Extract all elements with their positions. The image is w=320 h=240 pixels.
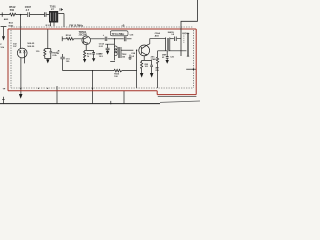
wire stage input [62, 38, 82, 40]
box TP501 [110, 31, 128, 36]
wire decoupling vertical [92, 71, 94, 104]
border red main PCB [8, 29, 196, 95]
ground arrow C514 [106, 51, 109, 55]
resistor R509 [141, 60, 143, 73]
capacitor C511 [50, 49, 53, 59]
wire ground bus bottom right [160, 101, 200, 102]
wire TR1 stub [24, 58, 26, 64]
resistor R514 [66, 38, 73, 41]
transformer T503 [166, 37, 174, 50]
svg-text:TP 10.7MHz: TP 10.7MHz [112, 34, 126, 36]
wire ground bus bottom [0, 103, 160, 105]
svg-text:C514: C514 [99, 42, 105, 45]
capacitor C515 [124, 36, 126, 41]
capacitor C509 above T501 [60, 8, 63, 11]
wire TR501 collector [91, 38, 115, 40]
capacitor C512 [92, 50, 95, 58]
svg-text:+B: +B [121, 25, 124, 27]
ground arrow R515 [83, 59, 86, 63]
ground antenna arrow left [1, 27, 7, 41]
resistor R506 [44, 49, 46, 59]
svg-text:E 5.5: E 5.5 [46, 25, 52, 27]
wire top input [0, 14, 49, 16]
capacitor C519 [150, 60, 153, 73]
node dot dashed 1 [20, 88, 21, 89]
capacitor C520 [166, 51, 169, 60]
capacitor C513 series [105, 37, 107, 41]
border dashed inner [11, 27, 193, 88]
capacitor C517 [129, 55, 132, 60]
label R512 value [4, 4, 56, 27]
capacitor C514 [106, 44, 110, 51]
capacitor C508 [45, 12, 46, 17]
svg-text:R514: R514 [66, 34, 72, 37]
wire base TR502 [121, 49, 133, 51]
svg-text:AB2: AB2 [4, 18, 9, 21]
wire bias RC [45, 29, 51, 48]
ground arrow C512 [92, 58, 95, 62]
wire ground drop 1 [56, 86, 58, 104]
svg-text:560: 560 [10, 8, 15, 12]
antenna rod [187, 33, 189, 56]
node dot dashed 3 [47, 88, 48, 89]
svg-text:H2(1C): H2(1C) [182, 33, 189, 35]
node dot rail [92, 70, 93, 71]
resistor R512 [10, 13, 16, 16]
node J3 junction dot [136, 50, 137, 51]
resistor R516 [114, 69, 122, 72]
wire output row [158, 50, 187, 52]
ground arrow C520 [166, 60, 169, 64]
transistor TR501 [82, 36, 91, 45]
ground arrow R509 [140, 73, 144, 78]
node rail junction [110, 101, 111, 104]
wire vertical tuning line [20, 15, 22, 94]
resistor R510 [157, 51, 159, 88]
wire bias vertical [136, 50, 138, 88]
svg-text:FM 10.7MHz: FM 10.7MHz [69, 24, 83, 27]
border black box top right [181, 0, 197, 56]
svg-text:2SC380: 2SC380 [79, 34, 88, 36]
svg-text:100: 100 [145, 66, 148, 68]
border black bottom right [158, 95, 197, 97]
node connector P1 [61, 36, 63, 41]
capacitor C516 electrolytic [60, 54, 64, 71]
wire T501 output [58, 14, 64, 28]
svg-text:TR501: TR501 [79, 30, 87, 34]
capacitor C507 [28, 12, 30, 17]
node input stub [1, 12, 3, 16]
node dot dashed 2 [38, 88, 39, 89]
wire TR502 collector [147, 39, 166, 46]
node J2 junction dot [114, 38, 115, 39]
wire ground drop 2 [123, 91, 125, 104]
node J1 junction dot [20, 14, 22, 16]
capacitor C521 [175, 37, 181, 42]
wire bias rail [63, 70, 137, 72]
wire J2 down [105, 39, 114, 44]
wire border tap [186, 68, 196, 70]
node border junction dot [193, 68, 195, 70]
transformer T502 [110, 44, 121, 61]
transistor TR502 [139, 45, 150, 56]
wire TR502 emitter [142, 56, 152, 61]
svg-text:1740S: 1740S [151, 58, 158, 61]
svg-text:C504: C504 [155, 32, 161, 35]
node TP left bottom [2, 97, 5, 104]
border dashed box right [183, 35, 185, 43]
ground arrow C519 [150, 73, 154, 78]
wire to C515 [115, 38, 132, 40]
transformer T501 [49, 11, 58, 23]
wire RC join [45, 58, 51, 61]
svg-text:560-20: 560-20 [27, 46, 35, 48]
svg-text:T501: T501 [50, 4, 56, 8]
svg-text:5602: 5602 [8, 25, 14, 27]
wire TR501 emitter [85, 45, 94, 51]
node dot dashed crossing [92, 88, 93, 89]
resistor R515 [84, 50, 86, 59]
transistor TR1 dual diode [17, 48, 27, 58]
ground arrow bottom left [19, 94, 23, 99]
ground arrow RC [46, 59, 49, 63]
svg-text:MA1N: MA1N [168, 31, 174, 34]
wire T501 bottom pins [51, 23, 55, 27]
svg-text:4.7: 4.7 [26, 8, 30, 12]
